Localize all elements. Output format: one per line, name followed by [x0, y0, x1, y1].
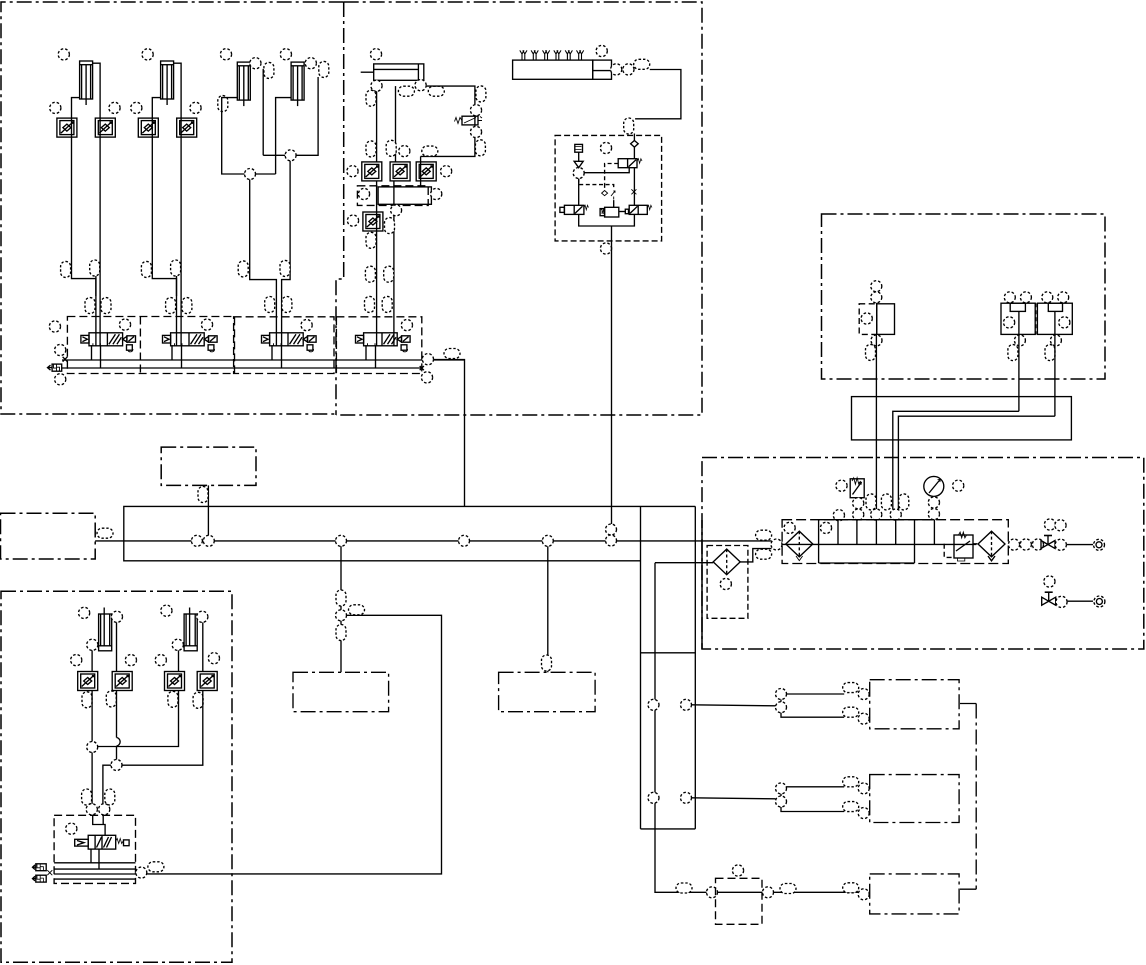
junction node — [191, 535, 202, 546]
wire: box D2 upper feed — [781, 787, 844, 796]
junction node — [776, 796, 787, 807]
pilot check symbol — [602, 191, 615, 201]
pilot unit U3 — [1037, 292, 1072, 361]
fitting — [336, 590, 346, 606]
nozzle hooks — [520, 50, 584, 60]
rail end circle — [422, 354, 433, 365]
wire: cylinder A3 rod line down — [262, 69, 264, 155]
fitting — [82, 789, 92, 805]
junction node — [776, 783, 787, 794]
port circle — [1044, 519, 1055, 530]
junction node — [136, 867, 147, 878]
pilot circle — [301, 320, 312, 331]
fitting — [168, 691, 178, 707]
wire: valve feed jog — [93, 816, 105, 835]
enclosure box: top-middle station group — [336, 2, 702, 415]
cylinder E1 — [99, 608, 112, 651]
junction node — [203, 535, 214, 546]
fitting — [386, 140, 396, 156]
manifold cell box 4 — [336, 317, 421, 374]
junction node — [285, 150, 296, 161]
port circle — [441, 166, 452, 177]
port circle — [953, 480, 964, 491]
junction node — [771, 539, 782, 550]
consumer box D2 — [870, 775, 959, 823]
fitting — [82, 692, 92, 708]
wire: U2 output down — [1018, 334, 1020, 411]
fitting — [280, 260, 290, 276]
wire: U1 output down — [875, 334, 877, 457]
fitting — [365, 266, 375, 282]
port circle — [600, 142, 611, 153]
wire: V1 to rails — [92, 345, 101, 368]
header manifold body — [513, 60, 593, 79]
enclosure box: pump / air-prep unit — [702, 458, 1144, 650]
wire: three pilot lines into unit — [876, 458, 898, 510]
manifold rails — [54, 863, 135, 879]
junction node — [776, 702, 787, 713]
port circle — [155, 655, 166, 666]
muffler — [33, 864, 47, 871]
port circle — [928, 508, 939, 519]
junction node — [336, 535, 347, 546]
fitting — [238, 261, 248, 277]
fitting — [85, 298, 95, 314]
junction node — [459, 535, 470, 546]
port circle — [87, 639, 98, 650]
x marker — [47, 870, 52, 875]
suction inner line — [655, 563, 870, 893]
check triangle — [574, 152, 583, 168]
port circle — [596, 45, 607, 56]
wire: into dashed block — [633, 134, 635, 141]
manifold cell box 3 — [234, 317, 334, 374]
fitting — [624, 118, 634, 134]
port circle — [611, 64, 622, 75]
fitting — [264, 62, 274, 78]
supply rail P — [62, 359, 465, 361]
junction node — [707, 887, 718, 898]
wire: bus drop to box C1 and loop to bottom-left — [147, 546, 442, 874]
enclosure box: small control box above bus — [161, 447, 256, 485]
wire: outlet line — [1067, 544, 1093, 546]
wire: suction inlet — [655, 562, 713, 564]
pilot 3/2 valve upper — [618, 159, 642, 168]
port circle — [370, 49, 381, 60]
port circle — [431, 188, 442, 199]
speed controller SC-D — [363, 212, 383, 231]
speed controller — [197, 672, 217, 691]
junction node — [858, 689, 869, 700]
fitting — [843, 707, 859, 717]
fitting — [866, 494, 876, 510]
port circle — [732, 865, 743, 876]
speed controller — [78, 672, 98, 691]
fitting — [97, 528, 113, 538]
speed controller — [112, 672, 132, 691]
junction node — [648, 699, 659, 710]
port circle — [600, 243, 611, 254]
dashed utility box C1 — [293, 672, 389, 711]
wire: outlet line down to bus — [611, 241, 613, 524]
port circle — [890, 509, 901, 520]
port circle — [1055, 520, 1066, 531]
fitting — [756, 530, 772, 540]
enclosure box: top-right solenoid group — [822, 214, 1106, 379]
routing box — [852, 397, 1072, 440]
outlet lubricator diamond — [978, 531, 1005, 561]
port circle — [125, 655, 136, 666]
junction node — [245, 169, 256, 180]
port circle — [1020, 539, 1031, 550]
check valve diamond — [631, 141, 639, 148]
fitting — [105, 789, 115, 805]
fitting — [166, 298, 176, 314]
fitting — [218, 96, 228, 112]
fitting — [542, 655, 552, 671]
port circle — [111, 611, 122, 622]
valve station enclosure — [54, 815, 135, 883]
cylinder A2 — [161, 61, 174, 105]
wire: V4 to rails — [366, 345, 376, 368]
wire: right leg — [633, 168, 635, 206]
port circle — [49, 321, 60, 332]
suction filter enclosure — [707, 546, 748, 619]
port circle — [928, 497, 939, 508]
fitting — [366, 141, 376, 157]
port circle — [1032, 539, 1043, 550]
port circle — [50, 102, 61, 113]
fitting — [193, 692, 203, 708]
hop over — [117, 738, 121, 747]
junction node — [111, 760, 122, 771]
pilot circle — [66, 823, 77, 834]
wire: U3 line re-routed — [898, 416, 1055, 457]
wire: collector to outlet — [579, 214, 635, 241]
wire: drops to valve — [92, 753, 111, 807]
fitting — [444, 349, 460, 359]
wire: valve out to left branch — [584, 168, 629, 173]
port circle — [86, 804, 97, 815]
port circle — [142, 49, 153, 60]
dashed utility box C2 — [499, 672, 595, 711]
enclosure box: top-left station group — [1, 2, 344, 414]
fitting — [843, 683, 859, 693]
port circle — [399, 146, 410, 157]
port circle — [58, 49, 69, 60]
consumer box D1 — [870, 680, 959, 729]
junction node — [606, 524, 617, 535]
fitting — [90, 260, 100, 276]
speed controller — [177, 118, 197, 137]
port circle — [820, 522, 831, 533]
fitting — [336, 625, 346, 641]
wire: cylinder A1 rod-end line — [93, 63, 100, 118]
port circle — [415, 80, 426, 91]
fitting — [843, 883, 859, 893]
pilot circle — [119, 319, 130, 330]
enclosure box: left supply box — [1, 513, 96, 559]
junction node — [776, 689, 787, 700]
outlet ball valve — [1041, 536, 1055, 549]
wire: drop to valve 3 port A — [250, 180, 277, 346]
enclosure box: bottom-left station group — [1, 591, 232, 962]
cylinder A3 — [237, 62, 250, 106]
speed controller — [165, 672, 185, 691]
port circle — [836, 480, 847, 491]
pilot network dashed — [579, 179, 614, 189]
port circle — [371, 80, 382, 91]
muffler — [48, 364, 62, 371]
fitting — [106, 691, 116, 707]
divider dashes between U2/U3 — [1036, 303, 1038, 334]
port circle — [833, 510, 844, 521]
port circle — [161, 605, 172, 616]
port circle — [347, 166, 358, 177]
port circle — [280, 49, 291, 60]
drain coupling — [1094, 596, 1105, 607]
pilot circle — [201, 319, 212, 330]
fitting — [398, 86, 414, 96]
wire: filter outlet riser — [740, 549, 771, 562]
speed controller SC-A — [362, 162, 382, 181]
port circle — [358, 188, 369, 199]
inlet filter diamond — [786, 531, 813, 560]
port circle — [250, 58, 261, 69]
port circle — [784, 522, 795, 533]
wire: lines to valve 2 — [177, 118, 182, 346]
speed controller — [95, 118, 115, 137]
x marker left — [63, 357, 68, 362]
speed controller — [138, 118, 158, 137]
wire: left leg down — [578, 179, 580, 206]
junction node — [606, 535, 617, 546]
fitting — [881, 494, 891, 510]
port circle — [720, 578, 731, 589]
wire: cylinder A2 rod-end line — [174, 63, 182, 118]
fitting — [319, 61, 329, 77]
cylinder A4 — [291, 62, 304, 106]
channel bottom — [641, 828, 696, 830]
suction filter diamond — [713, 549, 740, 575]
fitting — [634, 59, 650, 69]
solenoid valve V1 — [81, 333, 136, 352]
fitting — [265, 297, 275, 313]
wire: box D1 upper feed — [781, 694, 844, 702]
fitting — [475, 140, 485, 156]
horizontal cylinder B1 — [361, 64, 424, 80]
port circle — [623, 64, 634, 75]
wire — [633, 147, 635, 159]
wire: box D1 lower feed — [781, 713, 844, 718]
FRL cell dividers — [838, 520, 934, 545]
wire: cylinder A4 cap link — [276, 98, 292, 174]
manifold cell box 1+2 — [67, 317, 234, 374]
fitting — [476, 86, 486, 102]
wire: U2 line re-routed — [893, 411, 1019, 457]
wire: bus drop to box C2 — [547, 546, 549, 672]
port circle — [1056, 596, 1067, 607]
rail end circle — [421, 372, 432, 383]
fitting — [171, 260, 181, 276]
fitting — [843, 777, 859, 787]
drain port circle — [1044, 576, 1055, 587]
fitting — [349, 605, 365, 615]
x marker right — [420, 366, 424, 370]
port circle — [109, 102, 120, 113]
speed controller SC-B — [390, 162, 410, 181]
fitting — [198, 487, 208, 503]
wire: rail P to bus drop — [434, 360, 465, 507]
shared jogged divider — [336, 2, 344, 415]
timer volume — [600, 200, 628, 217]
port circle — [305, 58, 316, 69]
fitting — [843, 802, 859, 812]
consumer box D3 — [870, 874, 959, 914]
speed controller — [57, 118, 77, 137]
pilot dashed line — [605, 164, 619, 184]
wire: cap-end line down — [376, 91, 378, 162]
junction node — [573, 168, 584, 179]
wire: SC-C into block — [420, 156, 422, 187]
right 3/2 valve — [629, 205, 652, 214]
junction node — [542, 535, 553, 546]
bleed restrictor — [575, 144, 583, 152]
fitting — [780, 884, 796, 894]
wire: lines through block — [377, 181, 394, 346]
port circle — [220, 49, 231, 60]
manifold block dashed — [357, 186, 428, 206]
solenoid valve V3 — [262, 333, 317, 352]
port circle — [71, 655, 82, 666]
junction node — [336, 610, 347, 621]
wire: cylinder A2 cap-end line — [152, 98, 176, 296]
FRL body frame — [819, 520, 935, 563]
solenoid valve V4 — [356, 333, 411, 352]
fitting — [385, 218, 395, 234]
wire: rod-end line down — [395, 86, 397, 162]
wire: E2 rod line — [122, 622, 203, 765]
wire: drain line — [1068, 600, 1094, 602]
FRL dashed enclosure — [782, 520, 1008, 564]
wire: box D2 lower feed — [781, 807, 844, 812]
muffler — [33, 875, 47, 882]
port circle — [131, 102, 142, 113]
drain ball valve — [1042, 592, 1056, 605]
inline regulator — [455, 116, 483, 125]
fitting — [366, 232, 376, 248]
junction node — [648, 792, 659, 803]
wire: feed line 1 — [692, 705, 776, 706]
relief valve — [850, 478, 864, 498]
port circle — [197, 611, 208, 622]
cell divider — [139, 317, 141, 374]
exhaust rail R — [62, 367, 422, 369]
port circle — [99, 804, 110, 815]
port circle — [208, 653, 219, 664]
solenoid valve V5 — [75, 835, 129, 849]
channel left wall — [640, 506, 642, 829]
junction node — [858, 889, 869, 900]
x marker — [631, 189, 636, 194]
speed controller SC-C — [416, 162, 436, 181]
pilot unit U1 — [859, 281, 894, 361]
port circle — [1055, 539, 1066, 550]
wire: V3 to rails — [272, 345, 282, 368]
junction node — [681, 699, 692, 710]
solenoid valve V2 — [163, 333, 218, 352]
cylinder A1 — [80, 61, 93, 105]
wire: cylinder A3 cap line down — [222, 98, 276, 174]
port circle — [190, 102, 201, 113]
fitting — [428, 86, 444, 96]
port circle — [55, 374, 66, 385]
port circle — [853, 498, 864, 509]
fitting — [141, 261, 151, 277]
fitting — [384, 266, 394, 282]
FRL center flow line — [781, 543, 976, 545]
port circle — [55, 344, 66, 355]
fitting — [756, 549, 772, 559]
wire: V2 to rails — [172, 345, 182, 368]
junction node — [391, 205, 402, 216]
auxiliary dashed box — [716, 878, 763, 924]
wire: E2 cap line — [98, 650, 179, 746]
fitting — [366, 90, 376, 106]
pilot unit U2 — [1001, 292, 1035, 361]
fitting — [899, 494, 909, 510]
wire: lines to valve 1 — [96, 118, 100, 346]
wire: E1 cap line — [91, 650, 93, 741]
pressure gauge — [924, 476, 944, 496]
port circle — [347, 215, 358, 226]
channel right wall — [694, 506, 696, 829]
fitting — [382, 296, 392, 312]
port circle — [470, 126, 481, 137]
wire: feed line 2 — [692, 798, 776, 799]
manifold block solid — [378, 187, 431, 204]
grouping bracket — [960, 704, 976, 890]
wire: control box drop — [207, 485, 209, 541]
port circle — [470, 105, 481, 116]
bus duct outline — [124, 506, 696, 560]
port circle — [172, 639, 183, 650]
port circle — [1008, 539, 1019, 550]
junction node — [763, 887, 774, 898]
fitting — [282, 297, 292, 313]
fitting — [676, 883, 692, 893]
outlet block — [593, 60, 612, 79]
pilot circle — [401, 320, 412, 331]
left 3/2 valve — [560, 205, 589, 214]
port circle — [871, 509, 882, 520]
fitting — [365, 296, 375, 312]
fitting — [422, 146, 438, 156]
cylinder E2 — [184, 608, 197, 651]
regulator unit — [944, 532, 977, 561]
wire: E1 rod line — [116, 622, 118, 759]
junction node — [87, 742, 98, 753]
fitting — [101, 298, 111, 314]
port circle — [853, 509, 864, 520]
junction node — [858, 808, 869, 819]
wire: valve to rails — [91, 849, 99, 869]
fitting — [61, 261, 71, 277]
port circle — [79, 607, 90, 618]
wire: header to shut-off block — [635, 70, 681, 119]
wire: drop to valve 3 port B — [282, 161, 291, 346]
wire: U3 output down — [1054, 334, 1056, 416]
